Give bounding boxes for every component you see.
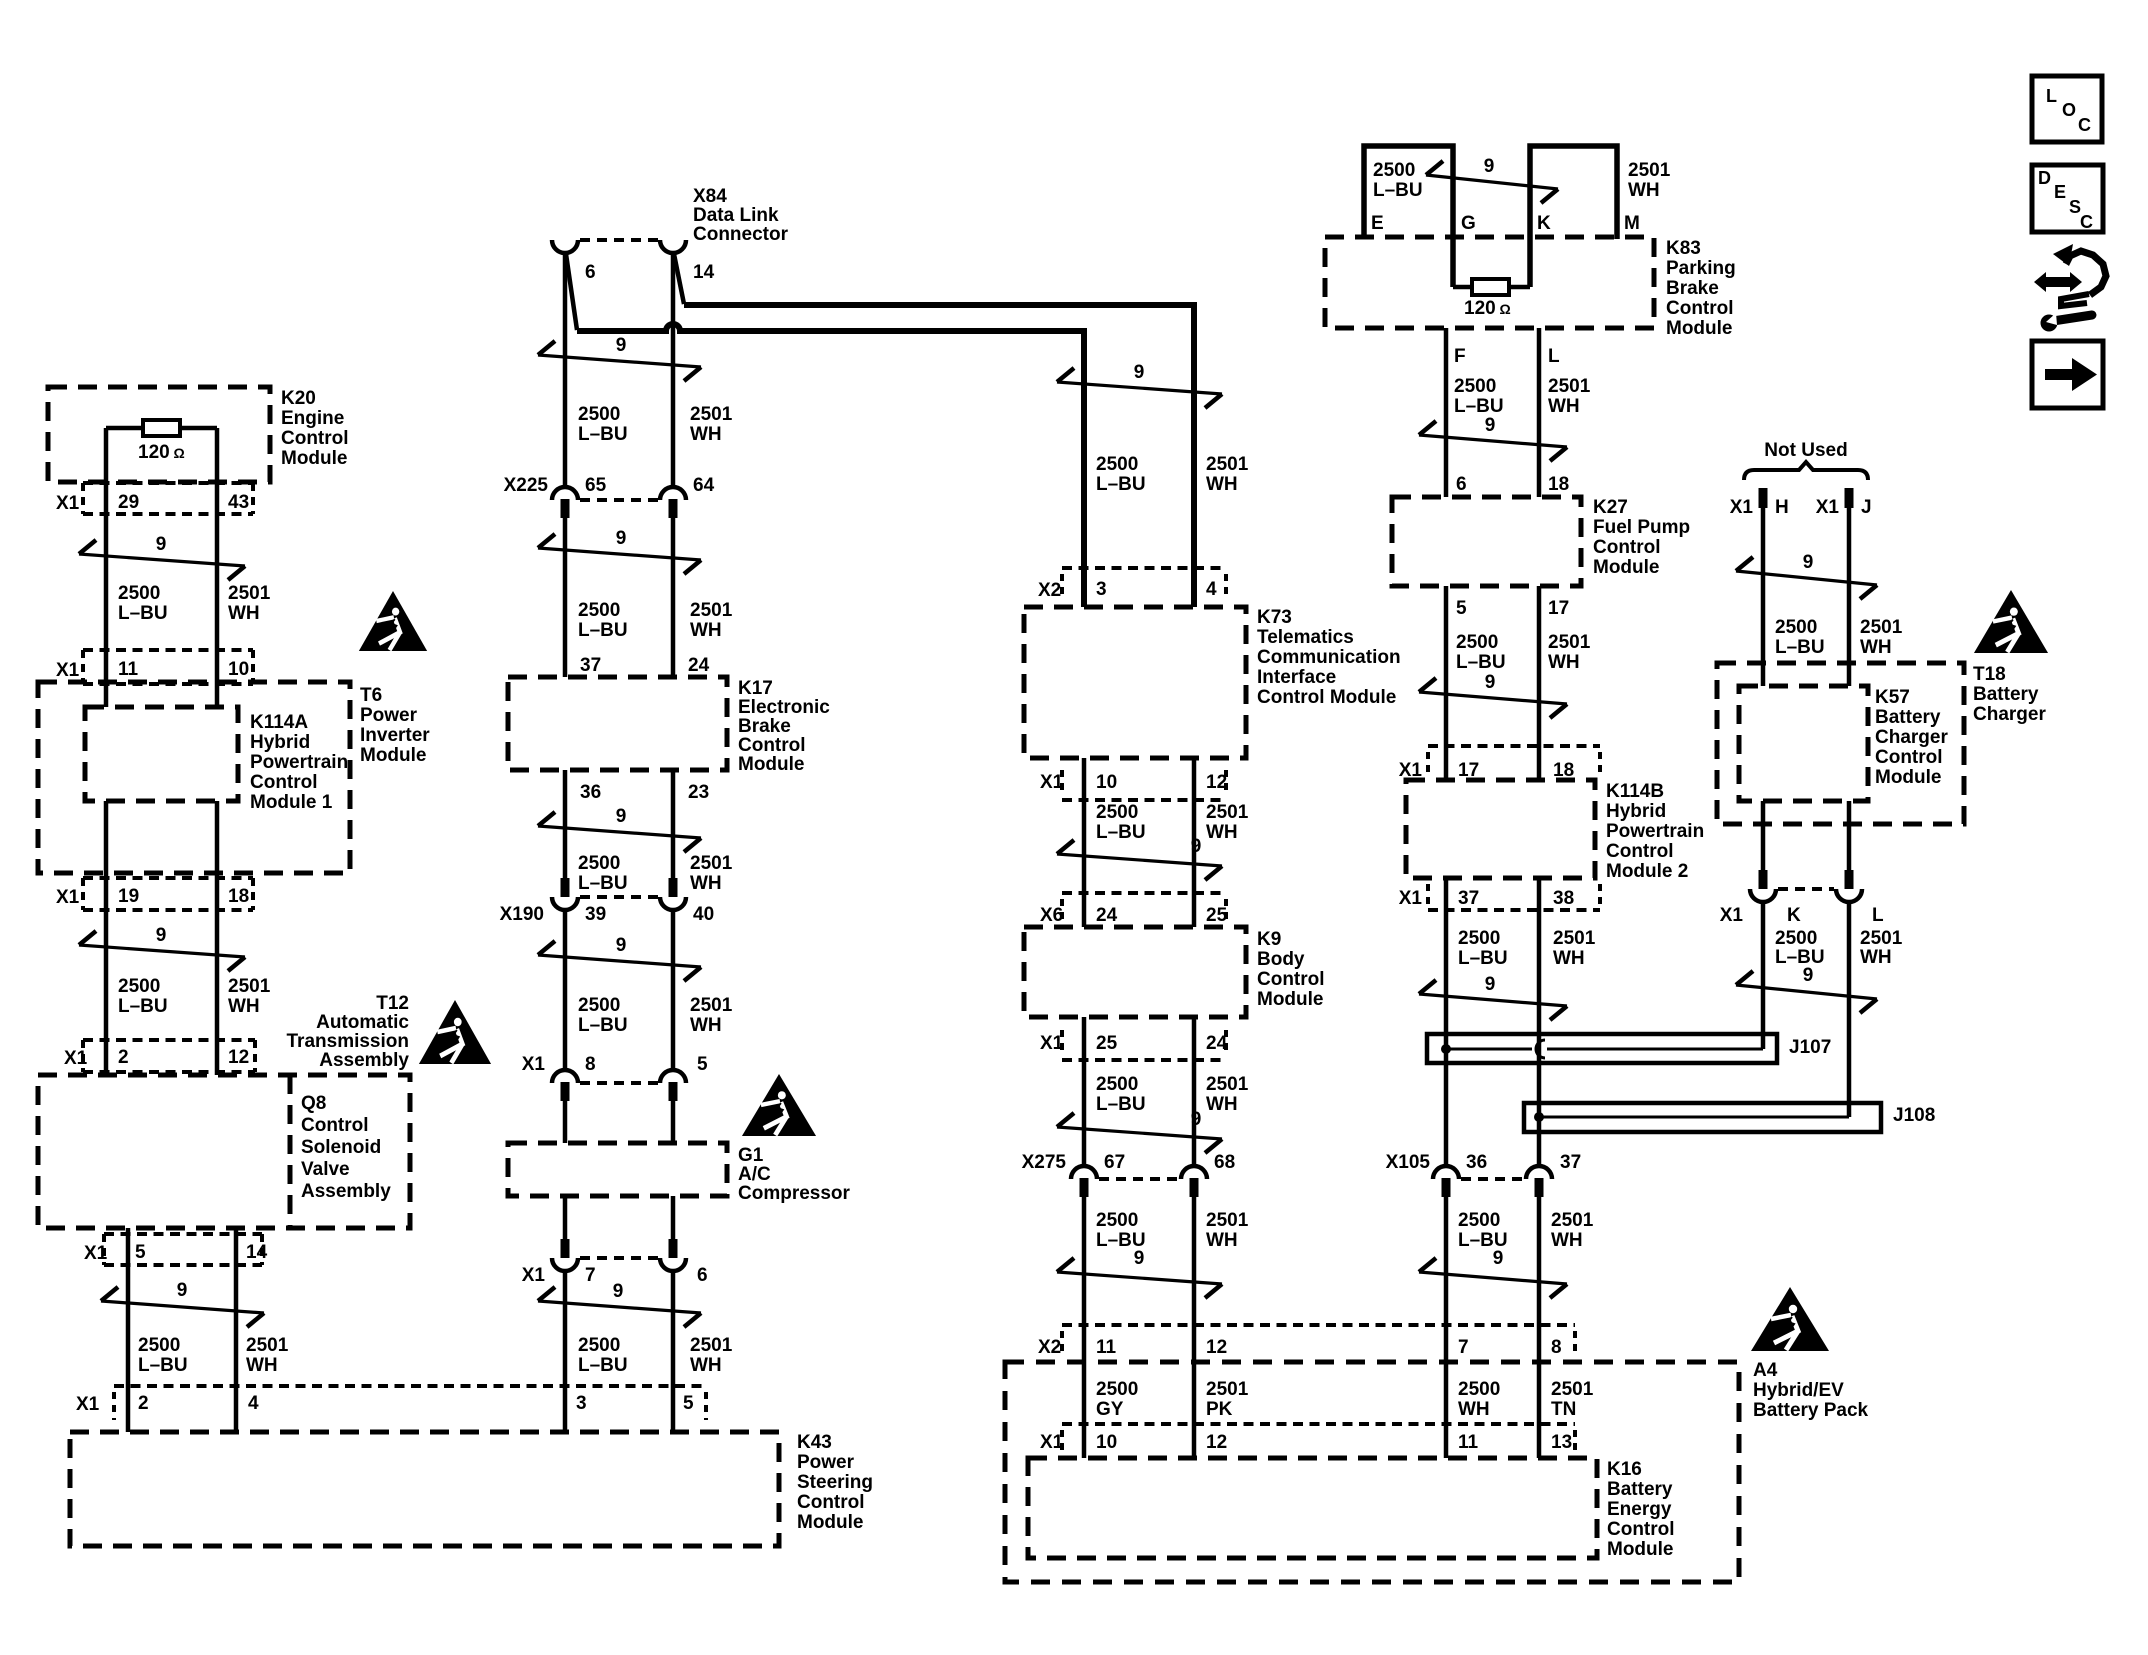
svg-text:10: 10 [1096, 1432, 1117, 1453]
svg-text:Compressor: Compressor [738, 1183, 851, 1204]
svg-text:2501: 2501 [1860, 928, 1903, 949]
wire 2500 L-BU from X84-6 down [563, 253, 568, 487]
svg-text:K: K [1537, 213, 1551, 234]
wire 2501 WH X225 to K17-24 [671, 518, 676, 677]
svg-text:Control: Control [301, 1115, 369, 1136]
svg-text:14: 14 [693, 262, 715, 283]
bracket Not Used [1744, 462, 1868, 480]
svg-text:Body: Body [1257, 949, 1305, 970]
module K27 Fuel Pump Control Module (dashed box) [1392, 497, 1581, 586]
svg-text:L–BU: L–BU [118, 603, 168, 624]
wire twisted-pair marker [1736, 571, 1877, 585]
svg-text:9: 9 [1803, 965, 1814, 986]
svg-text:2501: 2501 [246, 1335, 289, 1356]
svg-text:2500: 2500 [1775, 928, 1817, 949]
wire 2501 WH X275 to X2-12 [1192, 1197, 1197, 1362]
svg-text:11: 11 [1096, 1337, 1117, 1358]
svg-text:2501: 2501 [690, 600, 733, 621]
module T6 Power Inverter Module (outer dashed box) [38, 682, 350, 873]
wire branch X84-14 to CAN bus [674, 254, 684, 304]
svg-text:40: 40 [693, 904, 714, 925]
svg-text:9: 9 [1134, 362, 1145, 383]
svg-text:6: 6 [697, 1265, 708, 1286]
wire 2501 WH K17-23 to X190 [671, 770, 676, 878]
svg-text:Control: Control [1875, 747, 1943, 768]
svg-text:Brake: Brake [738, 716, 791, 737]
svg-text:43: 43 [228, 492, 249, 513]
svg-text:Connector: Connector [693, 224, 789, 245]
svg-text:X1: X1 [56, 887, 80, 908]
svg-text:WH: WH [1548, 652, 1580, 673]
svg-text:WH: WH [1206, 474, 1238, 495]
inline connector X105 pins 36/37 [1433, 1166, 1459, 1179]
svg-text:25: 25 [1096, 1033, 1118, 1054]
svg-text:O: O [2062, 100, 2076, 120]
module K83 Parking Brake Control Module (dashed box) [1325, 237, 1654, 328]
svg-text:A4: A4 [1753, 1360, 1778, 1381]
icon wrench [2053, 315, 2092, 321]
svg-text:24: 24 [688, 655, 710, 676]
svg-text:WH: WH [1206, 822, 1238, 843]
svg-text:K17: K17 [738, 678, 773, 699]
svg-text:X1: X1 [1730, 497, 1754, 518]
module T18 Battery Charger (outer dashed box) [1717, 663, 1964, 824]
svg-text:Electronic: Electronic [738, 697, 830, 718]
svg-text:9: 9 [616, 806, 627, 827]
wire 2500 L-BU K57 to X1-K [1761, 801, 1766, 870]
resistor 120 ohm in K20 [106, 426, 143, 431]
wire loop E to G (2500 L-BU) [1364, 146, 1453, 287]
svg-text:9: 9 [1485, 672, 1496, 693]
svg-text:K57: K57 [1875, 687, 1910, 708]
svg-text:2500: 2500 [138, 1335, 180, 1356]
svg-text:5: 5 [1456, 598, 1467, 619]
svg-text:2501: 2501 [1206, 802, 1249, 823]
svg-text:L–BU: L–BU [138, 1355, 188, 1376]
svg-text:2500: 2500 [578, 995, 620, 1016]
svg-text:2501: 2501 [1548, 632, 1591, 653]
svg-text:11: 11 [1458, 1432, 1479, 1453]
svg-text:X1: X1 [84, 1243, 108, 1264]
connector row X1 pins 19/18 [83, 876, 253, 880]
svg-text:Hybrid: Hybrid [1606, 801, 1666, 822]
wire stubs into K9 [1082, 893, 1087, 927]
svg-text:29: 29 [118, 492, 139, 513]
wire 2500 L-BU X1-K to J107 [1761, 902, 1766, 1049]
module A4 Hybrid/EV Battery Pack (outer dashed box) [1005, 1362, 1739, 1582]
connector row X1 pins 29/43 of K20 [83, 481, 253, 485]
wire 2500 L-BU K114B-37 through J107 to X105 [1444, 878, 1449, 1166]
svg-text:X1: X1 [76, 1394, 100, 1415]
svg-text:WH: WH [1860, 947, 1892, 968]
wire twisted-pair marker [1736, 985, 1877, 999]
wire 2501 WH X1-J to K57 [1847, 508, 1852, 686]
svg-text:2501: 2501 [1548, 376, 1591, 397]
wire 2501 WH to K43-5 [671, 1271, 676, 1432]
svg-text:F: F [1454, 346, 1466, 367]
svg-text:X1: X1 [56, 493, 80, 514]
svg-text:9: 9 [1484, 156, 1495, 177]
svg-text:Q8: Q8 [301, 1093, 326, 1114]
svg-text:WH: WH [1553, 948, 1585, 969]
svg-text:Control: Control [738, 735, 806, 756]
svg-text:2500: 2500 [1775, 617, 1817, 638]
wire 2501 WH X105 to X2-8 [1537, 1197, 1542, 1362]
svg-text:2500: 2500 [1096, 1379, 1138, 1400]
svg-text:4: 4 [248, 1393, 259, 1414]
svg-text:2501: 2501 [690, 853, 733, 874]
wire 2500 L-BU K20 left leg [104, 428, 109, 707]
svg-text:2500: 2500 [578, 600, 620, 621]
svg-text:L–BU: L–BU [1096, 1094, 1146, 1115]
wire 2501 WH from X84-14 down [671, 253, 676, 487]
wire 2500 GY stub [1082, 1362, 1087, 1458]
svg-text:2500: 2500 [578, 1335, 620, 1356]
svg-text:9: 9 [1485, 415, 1496, 436]
icon DESC box [2032, 165, 2103, 232]
svg-text:TN: TN [1551, 1399, 1576, 1420]
splice pack J107 [1427, 1034, 1777, 1063]
svg-text:2501: 2501 [1628, 160, 1671, 181]
svg-text:K20: K20 [281, 388, 316, 409]
svg-text:L–BU: L–BU [578, 424, 628, 445]
connector row X2 pins 11/12/7/8 of A4 [1062, 1323, 1575, 1327]
svg-text:L–BU: L–BU [1775, 947, 1825, 968]
svg-text:Assembly: Assembly [319, 1050, 409, 1071]
svg-text:X190: X190 [500, 904, 544, 925]
svg-text:Battery Pack: Battery Pack [1753, 1400, 1869, 1421]
svg-text:X84: X84 [693, 186, 727, 207]
svg-text:Control: Control [1606, 841, 1674, 862]
module K17 Electronic Brake Control Module (dashed box) [508, 677, 727, 770]
svg-text:Charger: Charger [1973, 704, 2046, 725]
svg-text:L–BU: L–BU [1096, 822, 1146, 843]
svg-text:X1: X1 [1399, 888, 1423, 909]
wire twisted-pair marker [1419, 1272, 1567, 1284]
svg-text:Module: Module [797, 1512, 864, 1533]
svg-text:C: C [2080, 212, 2093, 232]
svg-text:Module: Module [1666, 318, 1733, 339]
svg-text:L–BU: L–BU [1096, 474, 1146, 495]
svg-text:A/C: A/C [738, 1164, 771, 1185]
svg-text:Not Used: Not Used [1764, 440, 1847, 461]
svg-text:Assembly: Assembly [301, 1181, 391, 1202]
wire CAN bus 2501 WH horizontal run to K73 [684, 305, 1194, 607]
svg-text:Energy: Energy [1607, 1499, 1672, 1520]
connector row X6 pins 24/25 of K9 [1062, 891, 1226, 895]
wire 2501 WH K9 to X275 [1192, 1017, 1197, 1166]
connector X84 Data Link Connector [552, 240, 578, 253]
svg-text:2501: 2501 [1206, 1210, 1249, 1231]
warning triangle T6 [359, 591, 427, 651]
svg-text:2500: 2500 [1458, 928, 1500, 949]
svg-text:Module: Module [1257, 989, 1324, 1010]
svg-text:7: 7 [1458, 1337, 1469, 1358]
svg-text:5: 5 [135, 1242, 146, 1263]
wire twisted-pair marker [538, 1301, 701, 1313]
svg-text:J107: J107 [1789, 1037, 1831, 1058]
svg-text:L–BU: L–BU [578, 620, 628, 641]
svg-text:Module: Module [1593, 557, 1660, 578]
svg-text:23: 23 [688, 782, 709, 803]
svg-text:5: 5 [683, 1393, 694, 1414]
svg-text:37: 37 [1560, 1152, 1581, 1173]
svg-text:12: 12 [228, 1047, 249, 1068]
module K114B Hybrid Powertrain Control Module 2 (dashed box) [1406, 780, 1595, 878]
svg-text:2501: 2501 [1553, 928, 1596, 949]
svg-text:14: 14 [246, 1242, 268, 1263]
module Q8 Control Solenoid Valve Assembly (dashed sub-box) [288, 1075, 293, 1228]
svg-text:2501: 2501 [1551, 1210, 1594, 1231]
wire 2501 WH Q8 to K43 [234, 1228, 239, 1432]
svg-text:3: 3 [576, 1393, 587, 1414]
wire 2500 L-BU K27-5 to K114B [1444, 586, 1449, 780]
svg-text:9: 9 [1493, 1248, 1504, 1269]
svg-text:X1: X1 [56, 660, 80, 681]
wire 2501 WH G1 to X1-6 [671, 1196, 676, 1239]
svg-text:9: 9 [1191, 836, 1202, 857]
svg-text:2501: 2501 [690, 995, 733, 1016]
connector row X1 pins 25/24 of K9 [1062, 1058, 1226, 1062]
svg-text:9: 9 [156, 534, 167, 555]
svg-text:Powertrain: Powertrain [250, 752, 348, 773]
svg-text:Control: Control [1666, 298, 1734, 319]
wire twisted-pair marker [1426, 175, 1558, 189]
icon forward arrow box [2032, 341, 2103, 408]
svg-text:C: C [2078, 115, 2091, 135]
svg-text:2500: 2500 [1458, 1379, 1500, 1400]
svg-text:Battery: Battery [1875, 707, 1941, 728]
svg-text:2501: 2501 [1551, 1379, 1594, 1400]
svg-text:Control: Control [1607, 1519, 1675, 1540]
svg-text:18: 18 [228, 886, 249, 907]
svg-text:12: 12 [1206, 1337, 1227, 1358]
inline connector X1 pins K/L [1759, 870, 1768, 889]
svg-text:X225: X225 [504, 475, 549, 496]
svg-text:WH: WH [1628, 180, 1660, 201]
svg-text:X105: X105 [1386, 1152, 1431, 1173]
svg-text:M: M [1624, 213, 1640, 234]
svg-text:D: D [2038, 168, 2051, 188]
svg-text:Power: Power [797, 1452, 855, 1473]
svg-text:WH: WH [690, 620, 722, 641]
svg-text:Valve: Valve [301, 1159, 350, 1180]
svg-text:X6: X6 [1040, 905, 1063, 926]
svg-text:2501: 2501 [690, 1335, 733, 1356]
svg-text:9: 9 [1803, 552, 1814, 573]
svg-text:WH: WH [228, 996, 260, 1017]
svg-text:X1: X1 [1040, 1432, 1064, 1453]
icon wiring-route double arrow [2034, 272, 2082, 292]
svg-text:G: G [1461, 213, 1476, 234]
connector row X1 pins 2/4/3/5 of K43 [114, 1384, 706, 1388]
svg-text:13: 13 [1551, 1432, 1572, 1453]
svg-text:X1: X1 [1720, 905, 1744, 926]
svg-text:7: 7 [585, 1265, 596, 1286]
svg-text:38: 38 [1553, 888, 1574, 909]
svg-text:X1: X1 [1040, 772, 1064, 793]
wire 2500 L-BU K9 to X275 [1082, 1017, 1087, 1166]
svg-text:18: 18 [1548, 474, 1569, 495]
svg-text:37: 37 [580, 655, 601, 676]
svg-text:Module 2: Module 2 [1606, 861, 1688, 882]
connector row X1 pins 2/12 of T12 [83, 1038, 255, 1042]
svg-text:2500: 2500 [578, 853, 620, 874]
wire CAN bus 2500 L-BU horizontal run to K73 (hops over 2501) [577, 324, 1084, 607]
wire twisted-pair marker [538, 548, 701, 560]
svg-text:Battery: Battery [1607, 1479, 1673, 1500]
svg-text:2500: 2500 [1096, 802, 1138, 823]
svg-text:Control Module: Control Module [1257, 687, 1396, 708]
wire 2500 L-BU to G1 [563, 1101, 568, 1143]
svg-text:Charger: Charger [1875, 727, 1948, 748]
module K114A Hybrid Powertrain Control Module 1 (inner dashed box) [85, 707, 238, 801]
svg-text:25: 25 [1206, 905, 1228, 926]
svg-text:L–BU: L–BU [1454, 396, 1504, 417]
svg-text:K: K [1787, 905, 1801, 926]
svg-text:WH: WH [690, 1355, 722, 1376]
svg-text:24: 24 [1096, 905, 1118, 926]
splice pack J108 [1524, 1103, 1881, 1132]
svg-text:9: 9 [613, 1281, 624, 1302]
wire 2501 WH K114B-38 through J108 to X105 [1537, 878, 1542, 1166]
svg-text:37: 37 [1458, 888, 1479, 909]
svg-text:2500: 2500 [1373, 160, 1415, 181]
svg-text:Brake: Brake [1666, 278, 1719, 299]
svg-text:Interface: Interface [1257, 667, 1336, 688]
connector row X1 pins 10/12 of K73 [1062, 798, 1226, 802]
wire twisted-pair marker [1057, 1272, 1222, 1284]
svg-text:12: 12 [1206, 1432, 1227, 1453]
svg-text:K27: K27 [1593, 497, 1628, 518]
wire 2500 WH stub [1444, 1362, 1449, 1458]
svg-text:2500: 2500 [1096, 454, 1138, 475]
svg-text:2500: 2500 [1456, 632, 1498, 653]
resistor 120 ohm in K83 [1453, 285, 1474, 290]
svg-text:X1: X1 [522, 1054, 546, 1075]
svg-text:Transmission: Transmission [287, 1031, 410, 1052]
wire stubs into K73 [1082, 568, 1087, 607]
connector row X2 pins 3/4 of K73 [1062, 566, 1226, 570]
svg-text:Engine: Engine [281, 408, 344, 429]
warning triangle G1 [742, 1074, 816, 1136]
svg-text:9: 9 [1485, 974, 1496, 995]
svg-text:12: 12 [1206, 772, 1227, 793]
svg-text:2500: 2500 [1454, 376, 1496, 397]
svg-text:Control: Control [797, 1492, 865, 1513]
svg-text:9: 9 [616, 935, 627, 956]
svg-text:WH: WH [690, 424, 722, 445]
svg-text:Battery: Battery [1973, 684, 2039, 705]
svg-text:3: 3 [1096, 579, 1107, 600]
svg-text:WH: WH [1548, 396, 1580, 417]
wire 2501 WH K73 to K9 [1192, 758, 1197, 893]
module K57 Battery Charger Control Module (dashed box) [1739, 686, 1868, 801]
wire twisted-pair marker [101, 1301, 264, 1313]
svg-text:K43: K43 [797, 1432, 832, 1453]
svg-text:10: 10 [1096, 772, 1117, 793]
inline connector X190 pins 39/40 [561, 878, 570, 897]
wire 2500 L-BU G1 to X1-7 [563, 1196, 568, 1239]
wire twisted-pair marker [1419, 994, 1567, 1006]
svg-text:WH: WH [1551, 1230, 1583, 1251]
wire twisted-pair marker [538, 355, 701, 367]
svg-text:36: 36 [580, 782, 601, 803]
module K73 Telematics Communication Interface Control Module (dashed box) [1024, 607, 1246, 758]
svg-text:J: J [1861, 497, 1872, 518]
svg-text:Automatic: Automatic [316, 1012, 409, 1033]
svg-text:Parking: Parking [1666, 258, 1736, 279]
svg-text:2: 2 [138, 1393, 149, 1414]
svg-text:120 Ω: 120 Ω [1464, 298, 1511, 319]
svg-text:68: 68 [1214, 1152, 1235, 1173]
inline connector X275 pins 67/68 [1071, 1166, 1097, 1179]
svg-text:9: 9 [177, 1280, 188, 1301]
wire twisted-pair marker [1057, 382, 1222, 394]
svg-text:X2: X2 [1038, 580, 1061, 601]
wire loop K to M (2501 WH) [1530, 146, 1617, 287]
svg-text:L–BU: L–BU [578, 1015, 628, 1036]
svg-text:9: 9 [156, 925, 167, 946]
svg-text:G1: G1 [738, 1145, 764, 1166]
wire 2500 L-BU X225 to K17-37 [563, 518, 568, 677]
svg-text:E: E [2054, 182, 2066, 202]
wire twisted-pair marker [1057, 854, 1222, 866]
svg-text:120 Ω: 120 Ω [138, 442, 185, 463]
wire twisted-pair marker [538, 955, 701, 967]
svg-text:Hybrid/EV: Hybrid/EV [1753, 1380, 1844, 1401]
wire twisted-pair marker [538, 826, 701, 838]
wire twisted-pair marker [1419, 692, 1567, 704]
svg-text:WH: WH [1206, 1094, 1238, 1115]
svg-text:2: 2 [118, 1047, 129, 1068]
svg-text:Hybrid: Hybrid [250, 732, 310, 753]
svg-text:2500: 2500 [1096, 1210, 1138, 1231]
wire 2500 L-BU X275 to X2-11 [1082, 1197, 1087, 1362]
svg-text:9: 9 [1191, 1109, 1202, 1130]
svg-text:X1: X1 [522, 1265, 546, 1286]
svg-text:Fuel Pump: Fuel Pump [1593, 517, 1690, 538]
wire twisted-pair marker [1419, 435, 1567, 447]
svg-text:E: E [1371, 213, 1384, 234]
wire 2501 WH K27-17 to K114B [1537, 586, 1542, 780]
inline connector X1 pins 8/5 at G1 [552, 1070, 578, 1083]
wire 2501 PK stub [1192, 1362, 1197, 1458]
wire 2500 L-BU K17-36 to X190 [563, 770, 568, 878]
svg-text:9: 9 [616, 335, 627, 356]
terminal X1-H (not used) [1759, 488, 1768, 508]
svg-text:4: 4 [1206, 579, 1217, 600]
module G1 A/C Compressor (dashed box) [508, 1143, 727, 1196]
svg-text:WH: WH [1860, 637, 1892, 658]
wire 2500 L-BU X190 to G1 [563, 910, 568, 1070]
wire 2500 L-BU to K43-3 [563, 1271, 568, 1432]
svg-text:WH: WH [1206, 1230, 1238, 1251]
svg-text:5: 5 [697, 1054, 708, 1075]
svg-text:L–BU: L–BU [578, 873, 628, 894]
svg-text:X2: X2 [1038, 1337, 1061, 1358]
wire 2500 L-BU K114A to X1-19 [104, 801, 109, 1075]
svg-text:8: 8 [585, 1054, 596, 1075]
icon LOC box [2032, 76, 2102, 142]
svg-text:65: 65 [585, 475, 607, 496]
svg-text:9: 9 [1134, 1248, 1145, 1269]
svg-text:36: 36 [1466, 1152, 1487, 1173]
svg-text:11: 11 [118, 659, 139, 680]
svg-text:K9: K9 [1257, 929, 1281, 950]
svg-text:Module 1: Module 1 [250, 792, 333, 813]
wire 2501 WH K57 to X1-L [1847, 801, 1852, 870]
